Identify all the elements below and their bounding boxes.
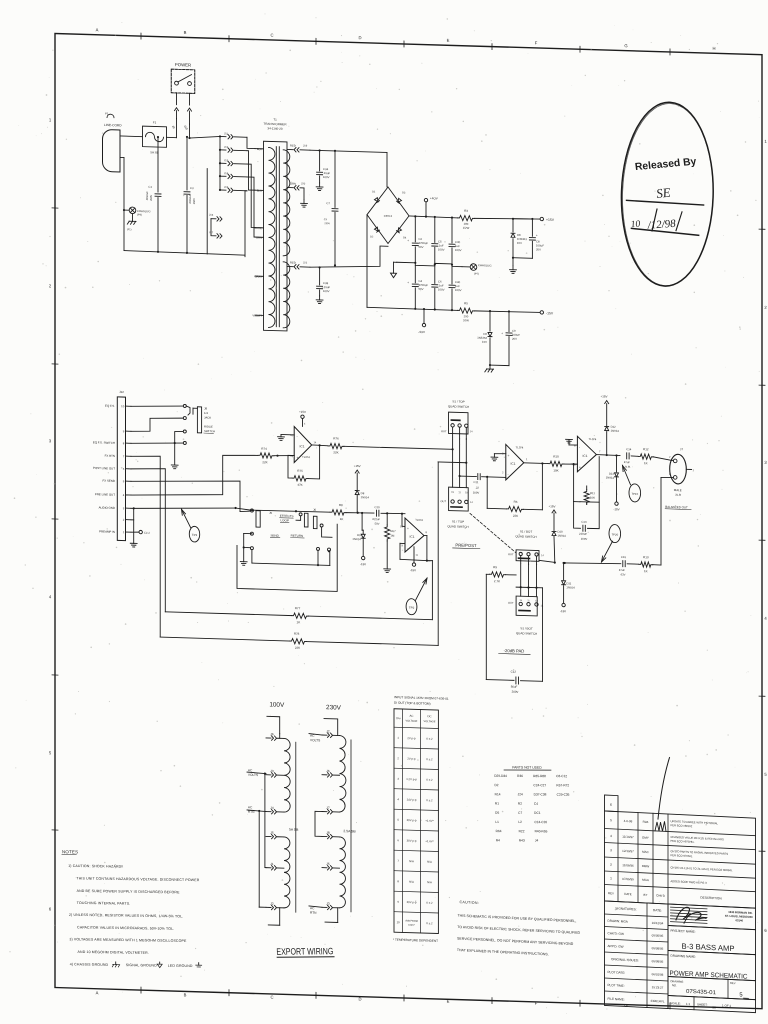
- spare connectors J16 J17: [211, 218, 216, 220]
- svg-text:F1: F1: [153, 120, 157, 124]
- svg-text:1N914: 1N914: [558, 534, 567, 538]
- svg-text:TL074: TL074: [589, 437, 597, 441]
- svg-text:D1: D1: [372, 190, 376, 194]
- svg-text:1N914: 1N914: [611, 429, 620, 433]
- svg-text:VOLTAGE: VOLTAGE: [406, 719, 418, 723]
- svg-text:S1 / TOP: S1 / TOP: [452, 399, 464, 403]
- svg-text:0 ±.2: 0 ±.2: [426, 901, 433, 905]
- IC1-b negative supply: [413, 547, 415, 563]
- svg-text:TP1: TP1: [192, 533, 198, 537]
- svg-text:100V: 100V: [323, 175, 330, 179]
- ground at IC1-c +in: [571, 463, 577, 465]
- svg-text:IC1: IC1: [300, 444, 305, 448]
- svg-text:+1.6V*: +1.6V*: [425, 839, 434, 843]
- svg-text:R43: R43: [519, 838, 525, 842]
- svg-text:RTN: RTN: [310, 911, 317, 915]
- svg-text:200V: 200V: [512, 690, 519, 694]
- snubber cap C34: [319, 150, 321, 171]
- output cap C14 47uF: [626, 453, 628, 459]
- svg-text:CLU: CLU: [144, 531, 150, 535]
- checker scribble on rev 5: [655, 821, 666, 832]
- fuse F1 (5A SB): [143, 126, 167, 147]
- wire plug to fuse: [120, 135, 143, 138]
- S1 BOT quad switch upper box: [516, 550, 539, 561]
- svg-text:SHEET:: SHEET:: [697, 1002, 708, 1007]
- svg-text:-: -: [407, 547, 408, 551]
- svg-text:E: E: [447, 38, 450, 43]
- svg-text:56uF: 56uF: [511, 685, 518, 689]
- svg-text:.022uF: .022uF: [372, 517, 381, 521]
- svg-text:QUAD SWITCH: QUAD SWITCH: [448, 404, 469, 409]
- svg-text:S1 / BOT: S1 / BOT: [520, 529, 533, 533]
- op-amp IC1-c TL074: [577, 436, 596, 472]
- S1 BOT upper common bar: [519, 557, 530, 559]
- +15V output terminal: [540, 217, 543, 221]
- svg-text:H: H: [712, 46, 715, 51]
- svg-text:J8: J8: [204, 406, 207, 410]
- zone number ticks left/right: [52, 207, 58, 209]
- scale sheet box: [668, 995, 756, 1012]
- svg-text:22K: 22K: [333, 450, 338, 454]
- stamp date underline: [631, 228, 698, 235]
- svg-text:FILE NAME:: FILE NAME:: [608, 997, 625, 1002]
- filter cap C4 4700uF 50V: [414, 265, 416, 283]
- svg-text:PLOT TIME:: PLOT TIME:: [608, 983, 625, 988]
- svg-text:P1: P1: [105, 112, 109, 116]
- chassis lug CHASLUG (P7): [462, 266, 470, 268]
- 100V winding upper: [279, 734, 281, 739]
- svg-text:TOUCHING INTERNAL PARTS.: TOUCHING INTERNAL PARTS.: [77, 901, 131, 906]
- 230V link J7-J8: [315, 811, 322, 836]
- svg-text:1/4: 1/4: [204, 411, 208, 415]
- S1 TOP quad switch upper box: [449, 412, 469, 434]
- svg-text:J2: J2: [326, 729, 330, 733]
- svg-text:J12: J12: [224, 145, 229, 149]
- line filter cap C3: [186, 137, 188, 190]
- svg-text:R77: R77: [295, 606, 301, 610]
- svg-text:1/2W: 1/2W: [463, 226, 470, 230]
- -20dB pad loop wires: [485, 574, 487, 679]
- svg-text:J5: J5: [326, 862, 330, 866]
- feedback network R11 10K: [573, 464, 575, 501]
- svg-text:R12: R12: [643, 447, 649, 451]
- svg-text:2: 2: [610, 863, 612, 867]
- svg-text:OUT: OUT: [508, 601, 514, 605]
- svg-text:R13: R13: [643, 555, 649, 559]
- svg-text:OUT: OUT: [508, 552, 514, 556]
- svg-text:DATE: DATE: [624, 892, 632, 896]
- svg-text:-4OV: -4OV: [418, 330, 425, 334]
- zone letter ticks top/bottom: [140, 33, 142, 39]
- svg-text:J2: J2: [270, 902, 274, 906]
- resistor R13 1K: [639, 562, 653, 568]
- wire J22 pin6 down to R77 loop: [131, 468, 165, 612]
- S1 TOP quad switch lower box: [449, 487, 469, 511]
- svg-text:6: 6: [610, 803, 612, 807]
- svg-text:EQ F.S.: EQ F.S.: [105, 404, 115, 408]
- svg-text:+: +: [508, 454, 510, 458]
- ground below DI jack: [174, 443, 176, 465]
- series resistor R76 22K: [320, 444, 328, 446]
- 230V top bracket: [324, 719, 338, 736]
- company logo box: [668, 904, 756, 930]
- svg-text:-20dB PAD: -20dB PAD: [504, 648, 525, 654]
- svg-text:+: +: [536, 233, 538, 237]
- resistor R12 1K: [638, 454, 653, 460]
- svg-text:+: +: [407, 281, 409, 285]
- svg-text:4-6-98: 4-6-98: [624, 819, 633, 823]
- svg-text:+15V: +15V: [299, 410, 306, 414]
- svg-text:1K: 1K: [340, 517, 344, 521]
- svg-text:-: -: [579, 446, 580, 450]
- FX return jack bodies: [304, 513, 308, 527]
- svg-text:C15: C15: [621, 555, 627, 559]
- svg-text:DRAWING: DRAWING: [670, 979, 683, 984]
- transformer T1 core: [275, 147, 277, 327]
- svg-text:-15V: -15V: [546, 311, 554, 315]
- signal ground triangle on bus: [394, 261, 397, 263]
- svg-text:250V: 250V: [149, 194, 153, 200]
- 230V taps: [322, 734, 327, 736]
- svg-text:47uF: 47uF: [624, 460, 630, 464]
- diode D12 1N914 to +15V: [606, 432, 608, 456]
- svg-text:VOLTAGE: VOLTAGE: [424, 719, 436, 723]
- cap C8 100uF 20V: [513, 217, 532, 220]
- svg-text:J17: J17: [209, 230, 214, 234]
- svg-text:4: 4: [610, 834, 612, 838]
- connector J22 body: [117, 397, 125, 541]
- svg-text:11/14/97: 11/14/97: [622, 835, 634, 840]
- svg-text:4) CHASSIS GROUND: 4) CHASSIS GROUND: [70, 962, 109, 967]
- wire C10 to IC1-b: [387, 512, 405, 515]
- bridge diode D4: [396, 228, 401, 233]
- svg-text:1:1: 1:1: [686, 1002, 690, 1006]
- svg-text:R10: R10: [553, 454, 559, 458]
- IC1-c output node: [596, 455, 620, 456]
- svg-text:-15V: -15V: [410, 568, 416, 572]
- resistor R9 2.7K: [486, 573, 489, 575]
- svg-text:12/10/97: 12/10/97: [622, 849, 634, 854]
- transformer T1 secondary winding: [283, 150, 290, 256]
- svg-text:S1 / TOP: S1 / TOP: [452, 519, 464, 523]
- 100V winding common line: [295, 742, 297, 912]
- S1 TOP upper box common bar: [451, 419, 459, 421]
- svg-text:2.7K: 2.7K: [494, 579, 500, 583]
- wire IC1-b output down to R77 loop: [427, 559, 433, 561]
- svg-text:J6: J6: [326, 769, 330, 773]
- dashed mechanical link: [470, 513, 516, 552]
- svg-text:100V: 100V: [438, 247, 445, 251]
- svg-text:R40-R55: R40-R55: [535, 829, 548, 833]
- secondary tap RED upper with connector J19: [287, 148, 293, 150]
- svg-text:1 OF 2: 1 OF 2: [722, 1004, 731, 1008]
- svg-text:63V: 63V: [621, 572, 626, 576]
- svg-text:J15: J15: [224, 185, 229, 189]
- svg-text:AUDIO GND: AUDIO GND: [99, 506, 115, 510]
- 100V top bracket: [267, 716, 280, 733]
- J22 pin1 terminal CLU: [131, 531, 139, 534]
- project name box: [668, 925, 756, 954]
- svg-text:SE: SE: [655, 185, 671, 202]
- clamp diode D9 1N914 to -15V: [361, 513, 363, 530]
- svg-text:J5: J5: [269, 511, 272, 515]
- wire switch return to tap bus: [189, 124, 191, 138]
- svg-text:N/A: N/A: [409, 859, 414, 863]
- IC1-a output wire: [524, 462, 548, 465]
- J22 pin 10 EQ F.S.: [126, 405, 132, 407]
- TP20 arrow: [602, 541, 613, 562]
- bridge diode D1: [374, 198, 379, 203]
- rail resistor R3 180 1/2W: [458, 215, 475, 221]
- svg-text:J11: J11: [224, 131, 229, 135]
- IC1 +15V supply pin: [302, 418, 304, 426]
- J22 pin 1 PREAMP IN: [126, 531, 132, 533]
- svg-text:TL074: TL074: [302, 455, 310, 459]
- wire J22 pin8 to DI jack sleeve switch: [131, 442, 175, 445]
- 230V winding upper: [340, 736, 346, 813]
- svg-text:FX SEND: FX SEND: [102, 479, 115, 483]
- svg-text:J7: J7: [680, 447, 683, 451]
- svg-text:5: 5: [610, 818, 612, 822]
- long wire R76 to top quad switch: [344, 446, 453, 450]
- 100V bottom bracket: [279, 908, 281, 926]
- svg-text:LED GROUND: LED GROUND: [168, 964, 193, 968]
- svg-text:10/12/94: 10/12/94: [652, 921, 664, 926]
- zener D8 1N5363 on +15 rail: [512, 219, 514, 232]
- svg-text:220uF: 220uF: [579, 532, 587, 536]
- svg-text:J13: J13: [224, 158, 229, 162]
- svg-text:S1 / BOT: S1 / BOT: [520, 626, 533, 630]
- svg-text:FX RTN: FX RTN: [105, 454, 115, 458]
- svg-text:D37-C38: D37-C38: [534, 792, 547, 796]
- svg-text:+: +: [407, 527, 409, 531]
- op-amp IC1-a TL074: [506, 444, 524, 480]
- secondary center tap GRN with connector J20: [287, 186, 293, 188]
- tap jog wires into transformer primary: [247, 137, 255, 148]
- svg-text:+4OV: +4OV: [430, 196, 438, 200]
- svg-text:+15V: +15V: [354, 464, 361, 468]
- wire J22 pin7 down to R78 loop: [131, 455, 160, 637]
- svg-text:22K: 22K: [295, 646, 300, 650]
- svg-text:-15V: -15V: [614, 507, 620, 511]
- svg-text:10K: 10K: [590, 496, 595, 500]
- svg-text:N.M.: N.M.: [625, 465, 631, 469]
- chassis lug CHASLUG: [124, 209, 129, 211]
- svg-text:J24: J24: [518, 792, 523, 796]
- svg-text:22K: 22K: [262, 460, 267, 464]
- svg-text:B: B: [184, 992, 187, 997]
- svg-text:J6: J6: [313, 508, 316, 512]
- svg-text:22K: 22K: [513, 514, 518, 518]
- svg-text:G: G: [624, 43, 627, 48]
- svg-text:J1: J1: [270, 862, 274, 866]
- 100V taps J6 J3 J4 J5 J1 J2: [266, 737, 271, 739]
- svg-text:30V p-p: 30V p-p: [407, 818, 417, 822]
- svg-text:R4: R4: [496, 838, 500, 842]
- J22 pin 7 FX RTN: [126, 455, 132, 457]
- 100V winding lower: [284, 837, 290, 908]
- svg-text:L2: L2: [518, 820, 522, 824]
- DI jack J8 spring contact: [186, 406, 190, 415]
- svg-text:MGA: MGA: [642, 878, 649, 882]
- svg-text:+: +: [407, 239, 409, 243]
- svg-text:R75: R75: [297, 469, 303, 473]
- svg-text:10W: 10W: [463, 318, 469, 322]
- svg-text:11/06/96: 11/06/96: [622, 863, 634, 868]
- 230V winding common line: [350, 740, 352, 912]
- FX return jack J6 contacts: [299, 513, 302, 516]
- wire return jack to C11 node: [322, 527, 332, 537]
- snubber cap C38: [319, 267, 321, 285]
- J22 pin 3 AUDIO GND: [126, 507, 132, 509]
- svg-text:50V: 50V: [375, 522, 380, 526]
- line filter cap C1: [157, 137, 159, 192]
- svg-text:RED: RED: [290, 144, 296, 148]
- svg-text:PREAMP IN: PREAMP IN: [99, 529, 115, 533]
- feedback resistor R75 47K: [308, 445, 320, 479]
- svg-text:PRE/POST: PRE/POST: [455, 543, 477, 549]
- svg-text:GRN: GRN: [290, 182, 296, 186]
- svg-text:J4: J4: [270, 806, 274, 810]
- svg-text:QUAD SWITCH: QUAD SWITCH: [515, 534, 536, 539]
- svg-text:15:23:27: 15:23:27: [652, 985, 664, 990]
- svg-text:(P4): (P4): [137, 212, 142, 216]
- J22 pin 4 PRE LINE OUT: [126, 494, 132, 496]
- wire RED upper to bridge top: [310, 150, 387, 152]
- svg-text:MALE: MALE: [674, 488, 682, 492]
- coupling cap C11 .22uF: [459, 475, 461, 477]
- svg-text:R11: R11: [590, 491, 595, 495]
- note 4 chassis ground symbol: [115, 962, 117, 965]
- svg-text:C13: C13: [581, 520, 587, 524]
- svg-text:R14: R14: [495, 792, 501, 796]
- J22 pin 5 FX SEND: [126, 480, 132, 482]
- svg-text:3: 3: [610, 848, 612, 852]
- svg-text:63146: 63146: [736, 918, 744, 922]
- line cord plug P1: [103, 129, 121, 172]
- primary tap stubs: [255, 148, 264, 150]
- verticals between BOT halves: [520, 561, 522, 596]
- svg-text:POST LINE OUT: POST LINE OUT: [93, 466, 115, 471]
- svg-text:DC1: DC1: [534, 811, 541, 815]
- positive rail from bridge: [409, 216, 458, 218]
- svg-text:R85-R88: R85-R88: [533, 774, 546, 778]
- svg-text:100V: 100V: [473, 491, 480, 495]
- svg-text:R76: R76: [333, 436, 339, 440]
- ground for D8/C8: [512, 266, 514, 270]
- svg-text:EXPORT WIRING: EXPORT WIRING: [276, 946, 333, 956]
- svg-text:0 ±.2: 0 ±.2: [426, 778, 433, 782]
- svg-text:10K: 10K: [553, 468, 558, 472]
- pen stroke above rev table: [658, 757, 670, 820]
- svg-text:2.5A SB: 2.5A SB: [343, 829, 356, 833]
- resistor R78 22K long loop: [160, 637, 290, 641]
- wire RED lower to bridge AC corner: [310, 244, 388, 270]
- svg-text:OUT: OUT: [441, 499, 447, 503]
- svg-text:F: F: [535, 1001, 538, 1006]
- svg-text:VOLTS: VOLTS: [310, 738, 320, 742]
- wire J22 pin4 to R74: [131, 452, 258, 499]
- svg-text:R9: R9: [493, 565, 497, 569]
- svg-text:C24-C26: C24-C26: [534, 820, 547, 824]
- revision row 6 cell: [605, 795, 619, 812]
- svg-text:PARTS NOT USED: PARTS NOT USED: [512, 766, 542, 770]
- svg-text:-: -: [508, 473, 509, 477]
- svg-text:14V p-p: 14V p-p: [407, 798, 417, 802]
- svg-text:05/08/95: 05/08/95: [652, 959, 664, 964]
- svg-text:20V: 20V: [536, 247, 541, 251]
- IC1-b feedback loop: [400, 542, 405, 544]
- svg-text:T1: T1: [273, 118, 277, 122]
- svg-text:R1: R1: [495, 802, 499, 806]
- svg-text:10V: 10V: [517, 241, 522, 245]
- wire J22 pin9 jog to DI jack: [131, 417, 183, 433]
- svg-text:230V: 230V: [326, 704, 342, 711]
- svg-text:R78: R78: [294, 632, 300, 636]
- svg-text:+15V: +15V: [549, 504, 556, 508]
- svg-text:G: G: [624, 1003, 627, 1008]
- svg-text:J16: J16: [209, 213, 214, 217]
- S1 BOT lower common bar: [519, 609, 530, 611]
- TP1 arrow: [182, 509, 191, 527]
- svg-text:50V: 50V: [419, 287, 424, 291]
- note 4 signal ground symbol: [159, 962, 161, 964]
- wire R5 to -15V terminal: [475, 310, 541, 312]
- NOTES text block: [62, 849, 202, 968]
- svg-text:1K: 1K: [644, 569, 648, 573]
- feedback R6 22K: [486, 477, 488, 509]
- ground at GRN center tap: [303, 188, 305, 200]
- svg-text:SEND: SEND: [271, 533, 280, 537]
- svg-text:NO.: NO.: [672, 983, 677, 987]
- neutral return wire: [120, 156, 124, 158]
- 230V winding lower: [340, 837, 346, 908]
- wire +in: [402, 525, 405, 527]
- svg-text:-15V: -15V: [560, 609, 566, 613]
- test point TP20: [609, 524, 621, 542]
- svg-text:CHK'D: GW: CHK'D: GW: [608, 931, 624, 936]
- svg-text:D: D: [358, 997, 361, 1002]
- primary tap bus: [219, 136, 221, 190]
- mid ground bus with jogs: [397, 262, 462, 266]
- svg-text:J7: J7: [326, 806, 330, 810]
- op-amp IC1-d TL074: [294, 426, 312, 463]
- +15V terminal above D8: [355, 470, 359, 473]
- svg-text:DC: DC: [427, 714, 431, 718]
- svg-text:A: A: [96, 27, 99, 32]
- title block group: [605, 754, 756, 1012]
- svg-text:L1: L1: [495, 820, 499, 824]
- svg-text:R57-R72: R57-R72: [556, 783, 569, 787]
- svg-text:J19: J19: [303, 143, 308, 147]
- 230V bottom bracket: [337, 908, 339, 923]
- svg-text:OUT: OUT: [441, 429, 447, 433]
- svg-text:TP2: TP2: [409, 606, 415, 610]
- svg-text:R5: R5: [464, 301, 468, 305]
- svg-text:.0022uF: .0022uF: [145, 191, 149, 201]
- svg-text:5A SB: 5A SB: [150, 150, 158, 154]
- chassis ground at lug: [132, 214, 134, 222]
- svg-text:.0022uF: .0022uF: [188, 194, 192, 204]
- primary tap connectors J11-J15: [220, 135, 226, 137]
- ground below R67: [386, 568, 388, 570]
- svg-text:C14: C14: [626, 447, 632, 451]
- svg-text:APP'D: GW: APP'D: GW: [608, 944, 624, 949]
- power switch S2 (dashed box): [171, 69, 194, 93]
- TP10 arrow: [623, 466, 631, 485]
- svg-text:J8: J8: [326, 831, 330, 835]
- XLR jack J7: [670, 454, 687, 484]
